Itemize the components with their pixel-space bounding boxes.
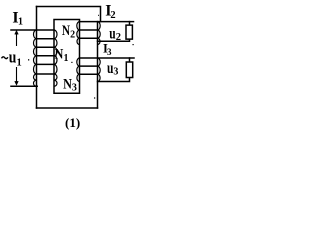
svg-text:1: 1 <box>18 17 23 28</box>
svg-text:2: 2 <box>70 29 75 40</box>
svg-text:2: 2 <box>116 32 121 43</box>
svg-text:1: 1 <box>64 53 69 64</box>
svg-text:2: 2 <box>110 10 115 21</box>
svg-text:1: 1 <box>17 57 22 68</box>
svg-text:(1): (1) <box>65 115 80 130</box>
svg-text:N: N <box>63 77 72 93</box>
svg-text:N: N <box>62 23 70 39</box>
svg-text:N: N <box>55 47 64 63</box>
svg-text:3: 3 <box>72 83 77 94</box>
svg-text:u: u <box>9 48 17 67</box>
svg-text:3: 3 <box>107 47 112 57</box>
svg-text:3: 3 <box>113 67 118 78</box>
